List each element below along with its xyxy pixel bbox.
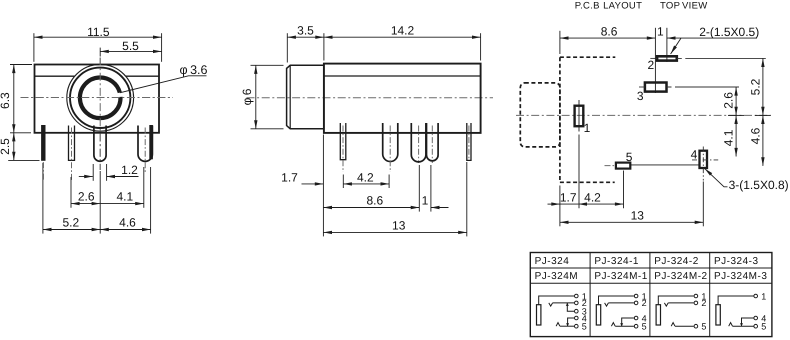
centerline tick at 5.2/4.6 [755, 114, 771, 116]
svg-text:8.6: 8.6 [366, 194, 383, 208]
pad 4 centerline stub [692, 159, 718, 161]
dimension 2.6 (pcb vertical) [735, 87, 737, 115]
dimension 14.2 (body length) [324, 36, 481, 38]
svg-text:φ 6: φ 6 [240, 88, 254, 105]
side view pin e [467, 123, 471, 160]
svg-text:1.2: 1.2 [121, 163, 138, 177]
dimension 8.6 (pcb: edge to pad 3) [560, 37, 656, 39]
extension line pad5 down [623, 171, 625, 209]
dimension 2.5 (pin length) [13, 133, 15, 161]
svg-text:4.6: 4.6 [119, 215, 136, 229]
extension line from pad 2 to 5.2 dim [677, 57, 766, 59]
svg-text:5: 5 [761, 322, 766, 332]
pad 3 centerline stub [639, 86, 645, 88]
tip contact symbol (v) [605, 303, 609, 306]
pad 4 [700, 151, 708, 168]
switch branch wire to terminal 4 [622, 318, 634, 326]
terminal 3 circle [575, 309, 579, 313]
svg-text:TOP: TOP [660, 0, 680, 11]
svg-text:5: 5 [626, 150, 633, 164]
jack sleeve symbol (cell 1) [537, 305, 541, 325]
svg-text:14.2: 14.2 [391, 24, 415, 38]
sleeve spring contact symbol (^) [611, 323, 615, 327]
dimension 4.6 (pcb vertical) [762, 115, 764, 165]
terminal 2 circle [634, 301, 638, 305]
svg-text:3-(1.5X0.8): 3-(1.5X0.8) [729, 178, 789, 192]
svg-text:6.3: 6.3 [0, 92, 12, 109]
svg-text:4.2: 4.2 [357, 171, 374, 185]
front view: body step line [35, 75, 160, 77]
extension lines for 13 [322, 135, 324, 237]
svg-text:1: 1 [657, 25, 664, 39]
dimension 4.2 (pin a to pin b) [343, 183, 389, 185]
pin 1 (front view, solid lug) [42, 126, 45, 161]
switch branch wire to terminal 4 [742, 318, 754, 326]
svg-text:1: 1 [584, 121, 591, 135]
wire: sleeve to terminal 1 [539, 296, 574, 305]
wire: spring contact to terminal 5 [675, 325, 694, 327]
svg-text:VIEW: VIEW [682, 0, 707, 11]
terminal 5 circle [754, 324, 758, 328]
pcb view: dashed body top edge [560, 56, 615, 58]
svg-text:5.5: 5.5 [122, 39, 139, 53]
pad 2 [657, 56, 677, 60]
terminal 5 circle [694, 324, 698, 328]
svg-text:PJ-324M-1: PJ-324M-1 [594, 271, 647, 282]
junction arrow on wire 2 [566, 303, 569, 306]
side view: nut chamfer line [289, 65, 291, 129]
terminal 5 circle [634, 324, 638, 328]
extension lines for pcb 8.6 / 1 [559, 31, 561, 54]
dimension 1 (pin c to pin d) [431, 207, 449, 209]
svg-text:5.2: 5.2 [749, 78, 763, 95]
svg-text:5: 5 [642, 322, 647, 332]
wire: spring contact to terminal 5 [615, 325, 634, 327]
terminal 2 circle [694, 301, 698, 305]
svg-text:2.5: 2.5 [0, 138, 12, 155]
terminal 1 circle [575, 294, 579, 298]
junction arrow on wire 5 [566, 323, 569, 326]
svg-text:13: 13 [631, 209, 645, 223]
extension lines for 4.2 [342, 175, 344, 189]
sleeve spring contact symbol (^) [556, 323, 560, 327]
side view: horizontal centerline [247, 97, 494, 99]
dimension 6.3 (body height) [13, 65, 15, 133]
dimension 13 (pcb) [560, 221, 703, 223]
terminal 4 circle [754, 316, 758, 320]
wire line from pad 5 to pad 4 [630, 164, 699, 166]
svg-text:PJ-324M-2: PJ-324M-2 [654, 271, 707, 282]
jack sleeve symbol (cell 3) [656, 305, 660, 325]
svg-text:4.1: 4.1 [116, 190, 133, 204]
svg-text:1.7: 1.7 [560, 190, 577, 204]
svg-text:11.5: 11.5 [87, 25, 110, 39]
side view pin a [340, 123, 346, 160]
front view: body outline [35, 65, 160, 133]
centerline tick at 2.6/4.1 [728, 114, 744, 116]
front view: vertical centerline over circles [99, 58, 101, 171]
pin 5 (front view, solid lug inside pin 4) [150, 126, 153, 159]
svg-text:3.5: 3.5 [297, 24, 314, 38]
wire: sleeve to terminal 1 [658, 296, 693, 305]
pin 2 (front view) [69, 126, 75, 161]
svg-text:2-(1.5X0.5): 2-(1.5X0.5) [699, 25, 759, 39]
wire: tip contact to terminal 2 [553, 302, 575, 304]
extension lines for 3.5 / 14.2 [286, 33, 288, 62]
pad 3 [645, 83, 667, 92]
side view: main body outline [324, 64, 481, 133]
extension lines for 5.2 / 4.6 [42, 163, 44, 234]
wire: tip contact to terminal 2 [668, 302, 694, 304]
wire: sleeve to terminal 1 [599, 296, 634, 305]
svg-text:PJ-324-2: PJ-324-2 [654, 256, 699, 267]
pin d centerline [431, 126, 433, 164]
pcb view: dashed body left edge [559, 57, 561, 182]
jack sleeve symbol (cell 4) [716, 305, 720, 325]
junction arrow on wire 5 [620, 323, 623, 326]
side view pin d (U shape) [427, 123, 439, 161]
front view: vertical centerline through barrel [99, 58, 101, 171]
pcb view: dashed body bottom edge [560, 181, 615, 183]
terminal 4 circle [634, 316, 638, 320]
pin a centerline [342, 126, 344, 173]
pin 4 centerline [144, 128, 146, 174]
svg-text:1: 1 [422, 194, 429, 208]
switch branch wire to terminal 3 [567, 303, 574, 311]
pin 2 centerline [71, 128, 73, 182]
svg-text:PJ-324-1: PJ-324-1 [594, 256, 639, 267]
dimension 4.1 (pcb vertical) [735, 115, 737, 156]
extension lines for 8.6 / 1 [418, 165, 420, 212]
table column lines [589, 253, 591, 337]
svg-text:2: 2 [647, 58, 654, 72]
svg-text:φ 3.6: φ 3.6 [180, 63, 208, 77]
dimension 11.5 (front view top width) [34, 36, 162, 38]
pin 4 (front view, U shape) [138, 126, 152, 162]
sleeve spring contact symbol (^) [671, 323, 675, 327]
svg-text:5.2: 5.2 [62, 215, 79, 229]
svg-text:4.1: 4.1 [722, 129, 736, 146]
pin e centerline [468, 126, 470, 161]
terminal 2 circle [575, 301, 579, 305]
extension lines for pcb 13 [559, 186, 561, 227]
tip contact symbol (v) [664, 303, 668, 306]
svg-text:5: 5 [582, 322, 587, 332]
pin 1 centerline [42, 162, 44, 181]
leader line for phi 3.6 [120, 76, 207, 93]
wire: spring contact to terminal 5 [560, 325, 574, 327]
pad 1 extension line down [578, 135, 580, 209]
dimension 8.6 (body edge to pin c) [323, 207, 419, 209]
pin 3 center pin (front view, U shape) [94, 126, 106, 162]
dimension 4.1 (center to pin4) [100, 203, 144, 205]
dimension 1.7 (body edge to pin a) [302, 183, 324, 185]
terminal 5 circle [575, 324, 579, 328]
dimension 5.2 (pcb vertical) [762, 58, 764, 115]
wire: spring contact to terminal 5 [733, 325, 754, 327]
dimension phi 6 (nut diameter) [255, 65, 257, 129]
svg-text:LAYOUT: LAYOUT [603, 0, 642, 11]
table outer border [530, 253, 772, 337]
extension lines for 6.3 / 2.5 [10, 64, 32, 66]
pad 2 left centerline stub [650, 57, 657, 59]
pad 1 vertical centerline [578, 100, 580, 132]
svg-text:13: 13 [392, 219, 406, 233]
pcb view: horizontal centerline [516, 114, 771, 116]
side view pin b (U shape) [383, 123, 398, 162]
svg-text:2: 2 [642, 298, 647, 308]
terminal 1 circle [694, 294, 698, 298]
dimension 5.2 (pin1 to center) [43, 229, 100, 231]
extension lines for 2.6 / 4.1 [70, 177, 72, 208]
jack sleeve symbol (cell 2) [596, 305, 600, 325]
svg-text:P.C.B: P.C.B [575, 0, 600, 11]
front view: barrel ring circle [70, 68, 130, 128]
junction arrow on wire 5 [740, 323, 743, 326]
front view: barrel outer circle [67, 64, 134, 131]
svg-text:8.6: 8.6 [601, 25, 618, 39]
svg-text:PJ-324M: PJ-324M [535, 271, 579, 282]
pad 5 [616, 163, 630, 169]
leader line for 3-(1.5X0.8) [705, 169, 728, 187]
svg-text:4.6: 4.6 [749, 127, 763, 144]
svg-text:2.6: 2.6 [722, 92, 736, 109]
pcb view: dashed barrel outline [520, 83, 560, 147]
extension line for 5.5 [99, 48, 101, 57]
dimension 1.7 (pcb) [548, 203, 560, 205]
svg-text:5: 5 [701, 322, 706, 332]
side view: front nut outline [287, 65, 324, 129]
dimension 4.2 (pcb) [578, 203, 623, 205]
svg-text:3: 3 [637, 89, 644, 103]
svg-text:PJ-324-3: PJ-324-3 [714, 256, 759, 267]
side view: body step line [324, 75, 481, 77]
dimension 2.6 (pin2 to center) [71, 203, 100, 205]
pad 5 centerline stub [605, 165, 616, 167]
pin c centerline [418, 126, 420, 164]
extension line from pad 3 to 2.6 dim [667, 86, 740, 88]
pad 4 vertical centerline [702, 147, 704, 181]
svg-text:1.7: 1.7 [281, 171, 298, 185]
svg-text:PJ-324: PJ-324 [535, 256, 570, 267]
dimension 5.5 (center to right edge) [100, 50, 161, 52]
svg-text:2.6: 2.6 [78, 190, 95, 204]
front view: horizontal centerline redraw over circles [21, 97, 174, 99]
dimension 4.6 (center to pin5) [100, 229, 150, 231]
svg-text:4: 4 [691, 148, 698, 162]
tip contact symbol (v) [549, 303, 553, 306]
wire: tip contact to terminal 2 [608, 302, 634, 304]
extension lines for 1.2 [92, 164, 94, 181]
terminal 4 circle [575, 316, 579, 320]
table row lines [530, 267, 772, 269]
switch branch wire to terminal 4 [568, 318, 575, 326]
front view: horizontal centerline [21, 97, 174, 99]
dimension 1 (pcb: pad3 to pad2) [667, 37, 757, 39]
extension lines for phi 6 [251, 64, 284, 66]
dimension 13 (body edge to pin e) [323, 231, 466, 233]
svg-text:PJ-324M-3: PJ-324M-3 [714, 271, 767, 282]
terminal 1 circle [754, 294, 758, 298]
sleeve spring contact symbol (^) [729, 323, 733, 327]
leader line for 2-(1.5X0.5) [671, 38, 681, 54]
terminal 1 circle [634, 294, 638, 298]
dimension 1.2 (center pin width) [79, 176, 93, 178]
side view pin c (U shape) [411, 123, 426, 162]
pin b centerline [389, 126, 391, 173]
svg-text:1: 1 [761, 291, 766, 301]
extension lines for 11.5 [33, 33, 35, 62]
front view: jack hole thick ring (phi 3.6) [79, 77, 121, 119]
svg-text:2: 2 [701, 298, 706, 308]
svg-text:4.2: 4.2 [584, 190, 601, 204]
pad 1 [575, 106, 584, 127]
dimension 3.5 (nut length) [287, 36, 324, 38]
wire: sleeve to terminal 1 [718, 296, 753, 305]
